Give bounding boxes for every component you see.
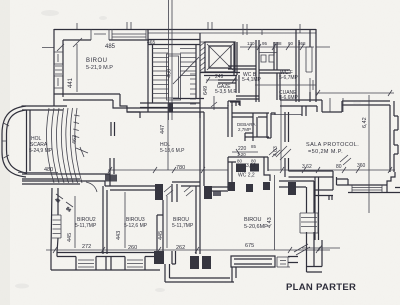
HOL SCARA: curved step fan	[46, 108, 88, 183]
room label: BIROU1	[86, 58, 113, 71]
dim line at y247 right	[302, 245, 340, 251]
long dimension line 780 at y170	[108, 163, 395, 173]
HOL SCARA: left bay curved wall	[2, 100, 80, 184]
stair: enclosure walls	[148, 30, 200, 119]
wall between BIROU2 and BIROU3	[103, 186, 107, 254]
dimension line under toilet block	[255, 82, 316, 88]
annex top bump	[228, 101, 240, 106]
bottom dimension line with 272 260 262 675	[46, 243, 330, 253]
paper texture noise	[0, 0, 1, 1]
elevator: door hatch strip	[200, 42, 205, 72]
wall between BIROU3 and BIROU4	[157, 200, 163, 254]
dimension: 460 rotated in stair well	[167, 69, 173, 78]
dimension: 480	[18, 167, 58, 173]
dimension: 462 rotated in hall	[72, 135, 78, 144]
elevator U shaft with X	[205, 42, 235, 72]
dimension: 249 above GAZE	[206, 74, 238, 83]
wall: top exterior (inner face, with window gaps)	[42, 22, 300, 48]
WC label	[238, 173, 255, 179]
right wing: top wall with pilaster	[316, 90, 394, 112]
room labels bottom band	[75, 217, 268, 230]
bottom rooms: top wall (HOL south)	[22, 174, 314, 202]
right wing: bottom wall with window	[315, 171, 400, 240]
solid pier at HOL south junction	[105, 175, 117, 182]
room label: WC B	[242, 72, 262, 83]
faint smudges	[15, 10, 361, 292]
WC block lower	[228, 157, 270, 192]
room label: GAZE	[215, 84, 237, 95]
toilet block: interior walls	[218, 40, 290, 102]
dimension: 441 rotated (left inside BIROU1)	[68, 44, 77, 92]
labels inside annex	[237, 122, 256, 132]
room label: HOL 18,6	[160, 142, 185, 154]
stair: up arrow diagonal	[173, 57, 199, 84]
room label: GARD	[279, 90, 299, 101]
room label: HOL SCARA	[29, 136, 53, 154]
wall: left exterior of BIROU1	[54, 29, 63, 100]
stair: bottom landing walls	[140, 99, 204, 113]
door swing: BIROU2 door	[54, 182, 97, 213]
dimension labels: 130 95 138 90 (top)	[240, 41, 314, 50]
stair side rungs at x190-196	[190, 74, 196, 104]
rotated dims 445/443/445	[67, 175, 275, 250]
dimension: 6,42 rotated inside SALA	[362, 95, 369, 213]
dimension: 485 top	[57, 23, 116, 51]
wall: top exterior (outer face)	[54, 30, 316, 34]
wall: elevator pit bottom	[200, 73, 240, 94]
room label: WC F	[279, 70, 299, 81]
wall between BIROU4 and BIROU(20,6)	[196, 186, 200, 254]
title: PLAN PARTER	[286, 282, 356, 293]
door swing marks near SALA entrance	[276, 146, 291, 160]
wall stub x111 y161-174	[110, 122, 115, 174]
right wing: right wall with pilaster	[390, 101, 398, 172]
dimension: 447 rotated	[160, 103, 168, 170]
middle hall walls (HOL 18,6)	[127, 108, 228, 186]
dimension: 465 top of stair	[147, 40, 156, 46]
dimension: 4,03 rotated at x281	[273, 95, 281, 170]
svg-text:PLAN PARTER: PLAN PARTER	[286, 282, 356, 293]
bottom exterior wall with windows	[51, 251, 298, 282]
section line through stair	[169, 0, 173, 120]
room label: SALA PROTOCOL	[306, 142, 359, 155]
door diagonal marks bottom rooms	[164, 115, 351, 197]
dimension marks: 220 / 1,20	[232, 144, 280, 157]
dimension: 649 rotated (right of GAZE room)	[203, 86, 209, 95]
bottom rooms: outer left wall with tall window	[51, 188, 61, 253]
stair: central well	[167, 54, 181, 100]
wall: top-right room right wall with window	[296, 29, 330, 102]
sanitary annex: upper room	[228, 102, 275, 141]
wall: BIROU1 south wall (between BIROU1 and HOL SCARA)	[54, 94, 140, 112]
dim tick on x214	[211, 96, 217, 110]
stair: treads	[152, 49, 196, 99]
right wing: left side stepped walls	[280, 100, 322, 177]
bottom-right wall of BIROU 20,6 with ladder window	[294, 181, 322, 272]
